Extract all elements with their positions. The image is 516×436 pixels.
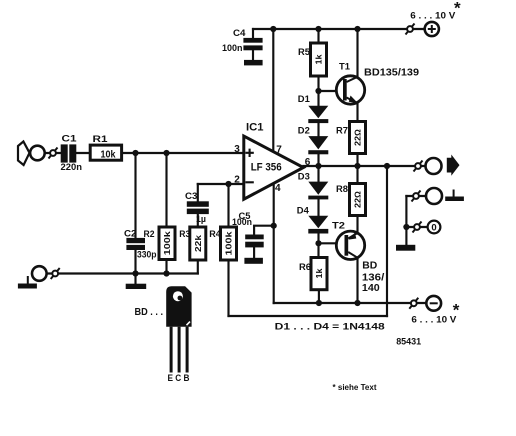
- wire T2 base: [319, 242, 337, 244]
- diode D3: [308, 182, 328, 200]
- svg-text:R7: R7: [336, 125, 348, 136]
- wire T1 base: [319, 90, 336, 92]
- wire C2 bottom stub: [134, 250, 136, 274]
- junction V+ T1: [354, 26, 360, 32]
- wire output jack 2: [406, 195, 425, 197]
- resistor R6: [311, 258, 327, 290]
- svg-text:0: 0: [431, 222, 436, 233]
- svg-text:3: 3: [234, 144, 240, 155]
- junction node 6: [315, 163, 321, 169]
- wire C5 ground stub: [253, 247, 255, 257]
- ground input bottom: [18, 276, 37, 289]
- svg-text:7: 7: [276, 144, 282, 155]
- junction V+ R5: [315, 26, 321, 32]
- wire output jack 3: [406, 226, 427, 228]
- wire pin4 supply: [273, 183, 275, 303]
- svg-text:C4: C4: [233, 28, 246, 39]
- op-amp U1 IC1 LF356: [244, 136, 304, 199]
- terminal V+ plus: [425, 22, 439, 36]
- svg-text:R2: R2: [144, 229, 155, 240]
- input terminal bottom: [32, 266, 47, 281]
- wire R1 to pin3: [122, 152, 244, 154]
- wire D1-D2 link: [317, 123, 319, 136]
- diode D1: [308, 106, 328, 123]
- svg-text:LF 356: LF 356: [251, 162, 282, 174]
- wire R2 bottom stub: [165, 260, 167, 274]
- svg-text:2: 2: [234, 175, 240, 186]
- svg-text:330p: 330p: [137, 250, 157, 261]
- svg-text:22Ω: 22Ω: [353, 190, 363, 208]
- wire node6 to D3: [317, 166, 319, 182]
- wire R5 bottom to node B1: [317, 76, 319, 106]
- svg-text:T2: T2: [332, 221, 345, 232]
- wire D2 to node 6: [317, 154, 319, 166]
- wire feedback up to output: [386, 166, 388, 316]
- svg-text:D1: D1: [298, 94, 311, 105]
- wire R7 bottom stub: [356, 154, 358, 167]
- svg-text:1k: 1k: [314, 54, 324, 64]
- wire jack2 down to jack3: [405, 196, 407, 245]
- svg-text:100n: 100n: [232, 217, 252, 227]
- wire feedback R4 down: [227, 260, 229, 316]
- ground C4: [244, 60, 263, 66]
- junction V- T2: [354, 300, 360, 306]
- svg-text:BD: BD: [362, 261, 377, 272]
- svg-text:BD . . .: BD . . .: [135, 306, 164, 318]
- wire T2 collector: [356, 258, 358, 303]
- svg-text:100k: 100k: [224, 231, 234, 255]
- resistor R3: [190, 227, 206, 260]
- terminal output jack2: [426, 188, 442, 204]
- svg-text:R8: R8: [336, 184, 348, 195]
- svg-text:140: 140: [362, 283, 380, 294]
- junction pin4 C5: [271, 223, 277, 229]
- terminal 0 jack3: [428, 221, 441, 234]
- svg-text:T1: T1: [339, 62, 351, 73]
- ground below C2: [126, 284, 147, 289]
- wire C3 top stub: [197, 184, 199, 201]
- junction node B2: [315, 240, 321, 246]
- wire D3-D4 link: [317, 199, 319, 215]
- wire pin2 line: [198, 183, 244, 185]
- svg-text:C1: C1: [62, 133, 77, 143]
- capacitor C3: [187, 201, 209, 214]
- capacitor C2: [126, 238, 145, 250]
- wire V+ rail: [253, 28, 425, 30]
- capacitor C4: [243, 38, 262, 50]
- wire R2 top stub: [165, 153, 167, 227]
- junction node pin3 R2: [163, 150, 169, 156]
- svg-text:6 . . . 10 V: 6 . . . 10 V: [411, 315, 457, 326]
- svg-text:C2: C2: [124, 229, 137, 240]
- resistor R4: [221, 227, 237, 260]
- svg-text:D1 . . . D4 = 1N4148: D1 . . . D4 = 1N4148: [275, 322, 385, 333]
- wire R5 top stub: [317, 29, 319, 43]
- input terminal top: [30, 146, 45, 161]
- ground jack group: [396, 245, 415, 251]
- wire output line: [303, 165, 425, 167]
- wire C5 branch: [254, 226, 274, 235]
- svg-text:*: *: [454, 0, 461, 18]
- wire input to C1: [45, 152, 61, 154]
- transistor package BD drawing: [166, 286, 191, 372]
- transistor Q1 T1: [336, 76, 364, 104]
- svg-text:136/: 136/: [362, 272, 385, 283]
- connector break V+: [406, 24, 415, 35]
- svg-text:10k: 10k: [101, 149, 116, 160]
- capacitor C5: [245, 235, 264, 248]
- resistor R1: [90, 145, 121, 160]
- connector break input top: [49, 148, 58, 159]
- terminal output jack1: [426, 158, 442, 174]
- junction pin2 R4: [225, 181, 231, 187]
- svg-text:85431: 85431: [396, 336, 421, 346]
- resistor R5: [311, 43, 327, 76]
- resistor R2: [159, 227, 175, 260]
- svg-text:4: 4: [275, 183, 281, 194]
- svg-text:22Ω: 22Ω: [353, 128, 363, 146]
- connector break V-: [409, 298, 418, 309]
- junction V- R6: [316, 300, 322, 306]
- diode D4: [308, 216, 328, 234]
- svg-text:220n: 220n: [61, 162, 83, 172]
- resistor R7: [350, 122, 366, 154]
- wire C4 top stub: [252, 29, 254, 38]
- wire C3 to R3: [197, 214, 199, 227]
- svg-text:6 . . . 10 V: 6 . . . 10 V: [410, 11, 456, 22]
- svg-text:R4: R4: [209, 229, 221, 240]
- svg-text:D4: D4: [297, 206, 310, 217]
- junction node out feedback: [384, 163, 390, 169]
- svg-text:D2: D2: [298, 126, 310, 137]
- connector break jack3: [413, 222, 422, 233]
- svg-text:6: 6: [305, 157, 311, 168]
- connector break jack2: [412, 191, 421, 202]
- transistor Q2 T2: [336, 231, 364, 259]
- ground C5: [244, 258, 263, 264]
- svg-text:1µ: 1µ: [196, 214, 206, 224]
- wire R8 to T2 emitter: [356, 216, 358, 234]
- wire feedback bottom run: [229, 315, 388, 317]
- wire C1 to R1: [76, 152, 90, 154]
- wire R8 top stub: [356, 166, 358, 184]
- wire C2 top stub: [134, 153, 136, 238]
- junction node out R7R8: [354, 163, 360, 169]
- resistor R8: [350, 184, 366, 216]
- junction jack3 ground: [403, 224, 409, 230]
- svg-text:22k: 22k: [193, 235, 203, 252]
- wire R3 bottom stub: [197, 260, 199, 274]
- wire pin7 supply: [272, 29, 274, 151]
- connector break output: [414, 161, 423, 172]
- capacitor C1: [61, 144, 77, 162]
- svg-text:E C B: E C B: [168, 373, 190, 383]
- connector break input bottom: [51, 268, 60, 279]
- wire signal ground line: [47, 272, 198, 274]
- wire ground symbol stub: [134, 274, 136, 284]
- junction ground R2: [163, 270, 169, 276]
- junction V+ pin7: [270, 26, 276, 32]
- wire T1 emitter to R7: [356, 103, 358, 121]
- svg-text:* siehe Text: * siehe Text: [333, 383, 377, 392]
- junction node pin3 C2: [132, 150, 138, 156]
- wire V- rail: [274, 302, 426, 304]
- svg-text:D3: D3: [298, 172, 310, 183]
- wire R6 bottom stub: [318, 290, 320, 303]
- svg-text:R1: R1: [93, 134, 108, 144]
- svg-text:100n: 100n: [222, 43, 243, 53]
- output arrow symbol: [447, 155, 460, 176]
- svg-text:IC1: IC1: [246, 121, 264, 133]
- junction node B1: [315, 88, 321, 94]
- svg-text:*: *: [453, 301, 460, 320]
- svg-text:R6: R6: [299, 262, 311, 273]
- wire T1 collector: [356, 29, 358, 77]
- earth symbol jack2: [445, 190, 464, 202]
- svg-text:100k: 100k: [162, 231, 172, 255]
- wire C4 bottom stub: [252, 50, 254, 60]
- diode D2: [308, 136, 328, 154]
- junction ground C2: [132, 270, 138, 276]
- wire D4 to node B2: [317, 234, 319, 258]
- terminal V- minus: [426, 296, 441, 311]
- wire R4 top stub: [227, 184, 229, 227]
- svg-text:1k: 1k: [314, 268, 324, 278]
- svg-text:R3: R3: [179, 229, 190, 240]
- svg-text:C3: C3: [185, 191, 198, 202]
- svg-text:BD135/139: BD135/139: [364, 66, 419, 78]
- svg-text:R5: R5: [298, 47, 311, 58]
- input source arrow symbol: [18, 142, 30, 166]
